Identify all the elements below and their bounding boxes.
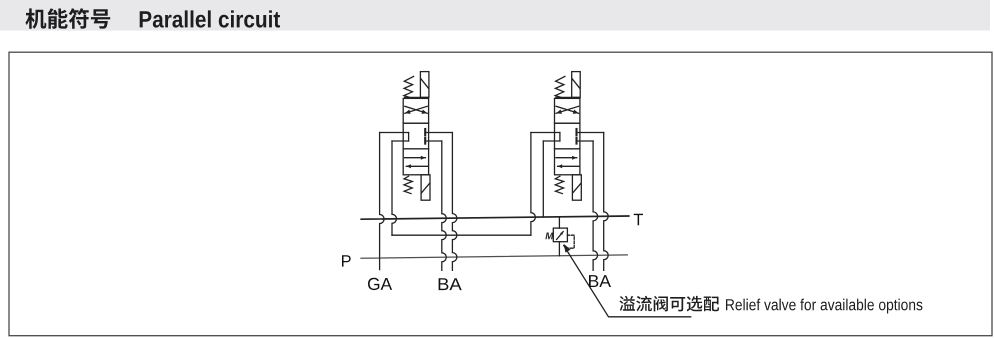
wire valve V1 work port A down to BA — [425, 133, 457, 271]
wire valve V2 port A to parallel line — [531, 133, 560, 236]
valve V2 pilot spring — [555, 76, 565, 97]
wire valve V2 work port A down to BA — [577, 133, 609, 271]
valve V1 pilot stage base line — [405, 96, 429, 98]
valve V2 pilot solenoid coil — [572, 72, 581, 98]
relief valve RV1 body — [553, 217, 567, 256]
valve V2 flow arrow left — [558, 164, 580, 168]
label BA right — [589, 275, 611, 287]
valve V1 flow arrow left — [406, 164, 428, 168]
valve V1 pilot spring — [404, 76, 414, 97]
label T — [634, 214, 643, 225]
valve V2 pilot valve box crossed arrows — [555, 98, 580, 123]
pressure bus line P — [361, 255, 627, 258]
valve V1 return spring — [404, 176, 412, 193]
valve V1 flow arrow right — [405, 156, 426, 160]
tank bus line T — [361, 216, 629, 219]
label BA left — [439, 278, 462, 290]
header bar — [0, 0, 990, 31]
annotation text Chinese — [619, 296, 719, 312]
wire valve V1 port B to parallel line — [392, 141, 409, 235]
valve V2 solenoid 2 — [572, 175, 581, 200]
wire valve V2 port B to T junction — [543, 141, 560, 217]
valve V2 flow arrow right — [556, 156, 577, 160]
label P — [342, 255, 351, 266]
valve V1 pilot valve box crossed arrows — [403, 98, 428, 123]
valve V2 internal port tab — [559, 133, 561, 142]
label GA — [368, 278, 392, 290]
valve V1 solenoid 2 — [421, 175, 430, 200]
parallel connection line — [392, 234, 531, 236]
wire valve V1 work port B down to BA — [425, 141, 446, 270]
valve V1 main body box — [403, 123, 428, 175]
relief valve RV1 label M — [545, 233, 553, 240]
valve V2 return spring — [555, 176, 563, 193]
header title Chinese — [25, 8, 110, 28]
relief valve RV1 flow arrow — [557, 232, 564, 240]
annotation leader arrow — [564, 244, 691, 317]
valve V2 main body box — [555, 123, 580, 175]
valve V2 port bars — [575, 129, 577, 144]
relief valve RV1 pilot dashed line — [567, 235, 574, 248]
annotation text English — [726, 299, 922, 314]
valve V2 pilot stage base line — [556, 96, 580, 98]
valve V1 pilot solenoid coil — [420, 72, 429, 98]
header title Parallel circuit — [140, 10, 280, 27]
wire valve V2 work port B down to BA — [577, 141, 598, 270]
wire GA port (valve V1 port A to GA) — [380, 133, 409, 270]
valve V1 internal port tab — [408, 133, 410, 142]
valve V1 port bars — [424, 129, 426, 144]
